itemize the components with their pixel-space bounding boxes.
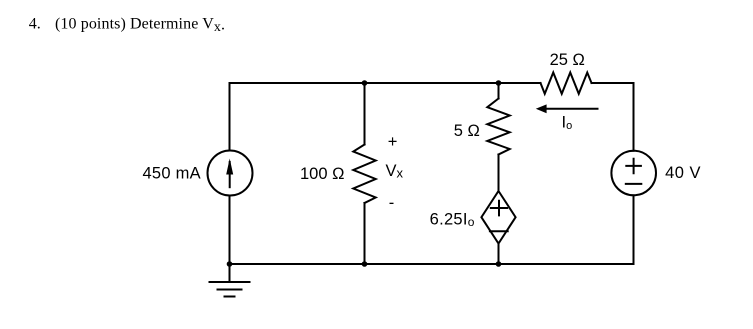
dependent source diamond 6.25Io — [481, 191, 515, 244]
node top 5ohm — [496, 80, 502, 86]
wire left branch upper — [229, 83, 231, 151]
current source arrow shaft — [229, 162, 231, 187]
svg-text:Io: Io — [562, 114, 573, 133]
wire bottom — [230, 263, 634, 265]
svg-text:5 Ω: 5 Ω — [454, 122, 480, 140]
node top 100ohm — [362, 80, 368, 86]
svg-text:40 V: 40 V — [665, 164, 701, 182]
ground — [210, 264, 250, 297]
current arrow Io shaft — [545, 108, 598, 110]
svg-text:4.: 4. — [29, 15, 41, 32]
wire 5ohm branch upper — [498, 83, 500, 99]
voltage source minus sign — [626, 183, 642, 185]
dependent source plus sign — [491, 201, 507, 216]
dependent source minus bar — [490, 230, 508, 232]
svg-text:-: - — [389, 194, 395, 212]
wire 5ohm to diamond — [498, 155, 500, 192]
svg-text:25 Ω: 25 Ω — [550, 51, 585, 69]
current source I1 450 mA circle — [208, 151, 253, 196]
svg-text:+: + — [388, 133, 398, 151]
voltage source V1 40 V circle — [611, 151, 656, 196]
resistor R2 5 Ohm — [487, 99, 509, 155]
wire diamond to bottom — [498, 244, 500, 265]
current arrow Io head — [536, 104, 547, 113]
resistor R1 100 Ohm — [353, 145, 375, 204]
wire 100ohm branch upper — [364, 83, 366, 145]
wire right branch lower — [633, 195, 635, 264]
wire top left segment — [230, 82, 541, 84]
svg-text:100 Ω: 100 Ω — [300, 165, 344, 183]
resistor R3 25 Ohm — [541, 73, 592, 94]
current source arrow head — [226, 159, 233, 175]
svg-text:450 mA: 450 mA — [143, 164, 201, 182]
svg-text:Vx: Vx — [386, 162, 404, 181]
wire left branch lower — [229, 196, 231, 265]
node bottom 5ohm — [496, 261, 502, 267]
wire right branch upper — [633, 83, 635, 151]
svg-text:(10 points) Determine Vx.: (10 points) Determine Vx. — [55, 15, 225, 35]
node bottom 100ohm — [362, 261, 368, 267]
wire top right segment — [592, 82, 634, 84]
node bottom left — [227, 261, 233, 267]
svg-text:6.25Io: 6.25Io — [430, 211, 475, 230]
wire 100ohm branch lower — [364, 203, 366, 264]
voltage source plus sign — [626, 159, 641, 174]
